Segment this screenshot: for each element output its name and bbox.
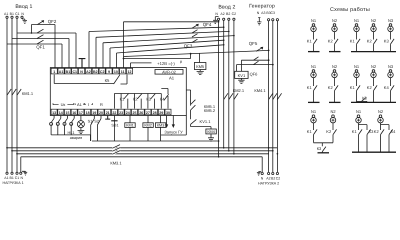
- node A1 B1 C1 N labels: [4, 12, 24, 16]
- breaker QF3 pole2: [192, 34, 198, 37]
- ground KM4: [208, 134, 214, 141]
- node Ввод 1 label: [15, 4, 32, 10]
- svg-text:11: 11: [121, 70, 125, 74]
- svg-text:22: 22: [112, 111, 116, 115]
- ground HL1: [78, 128, 85, 134]
- wire drop to terminal 1: [54, 25, 56, 68]
- wire bar r3c1: [318, 152, 330, 154]
- contactor coil KM3: [160, 116, 162, 123]
- svg-text:B1: B1: [66, 70, 71, 74]
- lamp HL1: [80, 116, 82, 121]
- svg-text:K1: K1: [352, 129, 358, 134]
- svg-text:К1: К1: [120, 97, 125, 102]
- wire bus N: [21, 157, 262, 173]
- wire from box edge: [186, 90, 190, 105]
- ground input1 N: [22, 18, 27, 23]
- wire branch N1: [313, 32, 315, 52]
- svg-text:+12В =(-): +12В =(-): [157, 61, 175, 66]
- svg-text:25: 25: [133, 111, 137, 115]
- svg-text:B1: B1: [10, 176, 14, 180]
- svg-text:C3: C3: [270, 11, 275, 15]
- svg-text:17: 17: [79, 111, 83, 115]
- svg-text:N2: N2: [330, 109, 336, 114]
- svg-text:B2: B2: [271, 176, 275, 180]
- svg-text:N2: N2: [371, 18, 377, 23]
- breaker QF2 label: [48, 19, 57, 24]
- node load1 labels: [4, 176, 23, 180]
- svg-text:C1: C1: [15, 12, 20, 16]
- svg-text:N1: N1: [311, 64, 317, 69]
- svg-text:N1: N1: [311, 109, 317, 114]
- wire terminal 22 down: [113, 116, 115, 142]
- svg-text:N: N: [80, 70, 83, 74]
- relay contact K2: [135, 94, 142, 109]
- svg-text:A1: A1: [4, 176, 8, 180]
- svg-text:12: 12: [128, 70, 132, 74]
- relay contact KM5.1: [191, 100, 196, 105]
- relay contact K5: [114, 75, 120, 85]
- wire branch N2: [373, 32, 375, 52]
- wire B1 branch to QF1: [12, 38, 69, 40]
- wire line to terminal 10: [117, 45, 224, 53]
- wire branch N3: [390, 78, 392, 103]
- svg-text:24: 24: [126, 111, 130, 115]
- svg-text:К4: К4: [160, 97, 165, 102]
- wire split n1 r3c2: [359, 123, 368, 152]
- node Ввод 2 label: [218, 5, 235, 11]
- svg-text:C2: C2: [276, 176, 281, 180]
- wire phase B1 vertical: [11, 18, 13, 172]
- node N A2 B2 C2 labels: [215, 12, 236, 16]
- wire bar r2c1b: [329, 101, 341, 103]
- svg-text:K1: K1: [307, 39, 313, 44]
- svg-text:QF1: QF1: [36, 44, 45, 49]
- wire branch N3: [390, 32, 392, 52]
- resistor dash under 21: [105, 116, 110, 120]
- svg-text:29: 29: [159, 111, 163, 115]
- svg-text:K2: K2: [328, 85, 334, 90]
- svg-text:I: I: [88, 102, 89, 107]
- ground load2 N: [257, 172, 261, 176]
- svg-text:К5: К5: [105, 78, 110, 83]
- wire battery plus line: [124, 58, 191, 60]
- wire B2 vertical: [228, 20, 230, 150]
- wire A2 vertical: [223, 20, 225, 147]
- svg-text:N2: N2: [332, 64, 338, 69]
- wire QF4 line to terminal A2: [89, 27, 224, 31]
- svg-text:N3: N3: [388, 18, 394, 23]
- svg-text:K1: K1: [307, 129, 313, 134]
- svg-text:28: 28: [153, 111, 157, 115]
- svg-text:QF2: QF2: [48, 19, 57, 24]
- switch S1: [91, 116, 95, 142]
- breaker QF2 contact: [38, 21, 44, 25]
- svg-text:30: 30: [166, 111, 170, 115]
- relay coil KV1: [235, 71, 248, 78]
- svg-text:Ввод 1: Ввод 1: [15, 4, 32, 10]
- wire QF6 line1: [241, 59, 268, 61]
- wire start output 30: [172, 116, 174, 128]
- node Запуск ГУ label: [164, 129, 183, 134]
- svg-text:N1: N1: [354, 18, 360, 23]
- junction terminal11 battery: [123, 58, 125, 60]
- node Схемы работы title: [330, 7, 370, 13]
- svg-text:КМ3: КМ3: [157, 124, 165, 128]
- breaker QF4 contact: [192, 24, 198, 28]
- svg-text:НАГРУЗКА 2: НАГРУЗКА 2: [258, 181, 279, 185]
- svg-text:B2: B2: [226, 12, 230, 16]
- wire branch N2: [332, 123, 334, 143]
- breaker QF1 pole3: [37, 40, 44, 44]
- device AVR-02 outer box: [50, 68, 186, 116]
- node Запуск ГУ output box: [161, 116, 186, 136]
- terminal circles input2: [218, 18, 220, 20]
- contactor coil KM2: [147, 116, 149, 123]
- svg-text:Ввод 2: Ввод 2: [218, 5, 235, 11]
- RIGHT PANEL: [307, 7, 396, 153]
- node bracket Uк: [53, 103, 74, 104]
- svg-text:R: R: [100, 102, 103, 107]
- node bracket I: [85, 103, 93, 104]
- svg-text:КМ1: КМ1: [126, 124, 134, 128]
- svg-text:15: 15: [66, 111, 70, 115]
- junction QF6: [268, 59, 270, 61]
- svg-text:QF4: QF4: [203, 22, 212, 27]
- svg-text:27: 27: [146, 111, 150, 115]
- wire gen B3 vertical: [272, 21, 274, 173]
- wire battery minus line to terminal 12: [131, 61, 182, 63]
- relay contact KM5.2: [191, 105, 196, 111]
- relay contact K4: [161, 89, 168, 109]
- svg-text:N1: N1: [311, 18, 317, 23]
- svg-text:S1: S1: [88, 119, 93, 123]
- svg-text:9: 9: [108, 70, 110, 74]
- svg-text:S2: S2: [94, 119, 99, 123]
- svg-text:14: 14: [59, 111, 63, 115]
- wire bar r3c2: [352, 151, 396, 153]
- ground km5: [197, 70, 204, 75]
- relay coil KM5: [194, 63, 206, 70]
- relay coil KM4: [191, 124, 211, 129]
- svg-text:1: 1: [53, 70, 55, 74]
- node battery label: [152, 61, 181, 66]
- wire bar r2c1a: [308, 101, 320, 103]
- wire bus phase C: [17, 153, 269, 155]
- terminals rows: [51, 68, 171, 115]
- wire C1 branch to QF1: [17, 32, 76, 34]
- relay contacts K1-K4 common bar: [114, 93, 161, 95]
- wire A1 branch to QF1: [7, 43, 62, 45]
- relay contact KM1.1 labels: [22, 91, 34, 96]
- svg-text:K1: K1: [307, 85, 313, 90]
- wire drop to terminal A1: [61, 44, 63, 68]
- wire start output 29: [166, 116, 168, 128]
- wire branch N1: [313, 78, 315, 103]
- relay contact K1: [114, 94, 128, 109]
- jumper selector 3: [65, 116, 68, 123]
- wire drop to terminal 11: [123, 22, 125, 68]
- terminal circles generator: [268, 19, 270, 21]
- wire phase A1 vertical: [6, 18, 8, 172]
- svg-text:A2: A2: [266, 176, 270, 180]
- breaker QF3 pole1: [192, 30, 198, 33]
- relay contact KM1.1 pole1: [7, 89, 11, 95]
- svg-text:A1: A1: [169, 76, 175, 81]
- jumper selector 4: [71, 116, 74, 123]
- breaker QF3 label: [184, 43, 193, 48]
- wire bus phase B: [12, 150, 273, 152]
- wire drop to terminal B1: [68, 39, 70, 68]
- svg-text:КМ5: КМ5: [196, 64, 205, 69]
- relay contact KM1.1 pole3: [17, 89, 21, 95]
- relay contact KV1.1: [191, 110, 197, 124]
- svg-text:13: 13: [52, 111, 56, 115]
- ground input2 N: [213, 17, 219, 24]
- breaker QF1 label: [36, 44, 45, 49]
- wire QF3 line1 to terminal B2: [96, 31, 229, 37]
- svg-text:A2: A2: [86, 70, 91, 74]
- switch labels S1 S2: [88, 119, 99, 123]
- breaker QF1 pole1: [37, 29, 44, 33]
- svg-text:КМ1.1: КМ1.1: [22, 91, 34, 96]
- wire QF5 line to KM5: [124, 50, 269, 56]
- svg-text:N3: N3: [388, 64, 394, 69]
- ground KV1: [238, 78, 244, 83]
- svg-text:A3: A3: [261, 11, 265, 15]
- breaker QF1 pole2: [37, 35, 44, 39]
- svg-text:КМ2: КМ2: [144, 124, 152, 128]
- relay contact KM3.1 pole3: [113, 151, 121, 155]
- svg-text:К2: К2: [133, 97, 138, 102]
- junction battery km5: [190, 53, 192, 55]
- terminal circles load1: [6, 172, 8, 174]
- svg-text:N2: N2: [371, 64, 377, 69]
- svg-text:AL: AL: [77, 102, 83, 107]
- device designator A1: [169, 76, 175, 81]
- relay contact KM4.1 label: [254, 88, 266, 93]
- svg-text:K4: K4: [384, 85, 390, 90]
- relay contact KM4.1 pole1: [269, 93, 273, 99]
- wire gen C3 vertical: [276, 21, 278, 173]
- svg-text:N2: N2: [332, 18, 338, 23]
- svg-text:K1: K1: [350, 85, 356, 90]
- svg-text:21: 21: [106, 111, 110, 115]
- wire phase C1 vertical: [16, 18, 18, 172]
- wire bar r2c2: [351, 101, 396, 103]
- svg-text:авария: авария: [70, 136, 83, 140]
- svg-text:НАГРУЗКА 1: НАГРУЗКА 1: [3, 181, 24, 185]
- node load2 labels: [261, 176, 281, 180]
- relay contact K3 below tie r3c1: [314, 142, 334, 144]
- svg-text:Запуск ГУ: Запуск ГУ: [164, 129, 183, 134]
- svg-text:10: 10: [114, 70, 118, 74]
- wire C2 vertical: [233, 20, 235, 153]
- wire common return line: [92, 140, 219, 142]
- svg-text:КМ5.2: КМ5.2: [204, 108, 216, 113]
- lamp HL1 label: [68, 131, 83, 140]
- svg-text:N1: N1: [356, 109, 362, 114]
- svg-text:23: 23: [119, 111, 123, 115]
- relay contact KM2.1 pole3: [234, 93, 238, 99]
- svg-text:QF6: QF6: [250, 72, 259, 77]
- svg-text:A2: A2: [220, 12, 224, 16]
- wire drop to terminal A2: [88, 32, 90, 68]
- wire QF3 line2 to terminal C2: [103, 36, 234, 43]
- svg-text:К4: К4: [391, 129, 396, 134]
- svg-text:AVR-02: AVR-02: [162, 69, 176, 74]
- wire drop to terminal C2: [102, 43, 104, 68]
- terminal circles load2: [261, 172, 263, 174]
- svg-text:КМ4.1: КМ4.1: [254, 88, 266, 93]
- relay contact KM4.1 pole3: [277, 93, 281, 99]
- relay contact KM3.1 pole1: [113, 145, 121, 149]
- wire drop to terminal C1: [75, 33, 77, 68]
- svg-text:K2: K2: [367, 39, 373, 44]
- svg-text:N1: N1: [354, 64, 360, 69]
- breaker QF6 pole2: [254, 61, 259, 64]
- relay contact KM2.1 pole1: [224, 93, 228, 99]
- node bracket AL: [75, 103, 84, 104]
- wire top line to terminal 11: [124, 21, 219, 23]
- wire bar r1c1b: [329, 51, 341, 53]
- svg-text:A1: A1: [4, 12, 8, 16]
- svg-text:C1: C1: [15, 176, 20, 180]
- breaker QF4 label: [203, 22, 212, 27]
- svg-text:20: 20: [99, 111, 103, 115]
- wire QF2 horizontal: [32, 24, 56, 26]
- svg-text:A1: A1: [59, 70, 64, 74]
- svg-text:19: 19: [92, 111, 96, 115]
- svg-text:КМ2.1: КМ2.1: [233, 88, 245, 93]
- ground load1 N: [22, 171, 27, 175]
- svg-text:К3: К3: [317, 146, 322, 151]
- svg-text:К3: К3: [146, 97, 151, 102]
- svg-text:Генератор: Генератор: [249, 4, 275, 10]
- node N A3 B3 C3 labels: [257, 11, 275, 15]
- wire QF3 line3 to terminal 9: [110, 40, 224, 48]
- breaker QF5 label: [249, 41, 258, 46]
- relay contact KM3.1 label: [110, 160, 122, 165]
- relay K5 bus: [54, 75, 113, 84]
- wire KV1 feeds: [237, 60, 242, 71]
- wire QF6 line2: [237, 64, 273, 66]
- breaker QF6 pole1: [254, 57, 259, 60]
- svg-text:N2: N2: [378, 109, 384, 114]
- svg-text:K2: K2: [326, 129, 332, 134]
- wire branch N1: [356, 78, 358, 103]
- relay contact KM3.1 pole2: [113, 148, 121, 152]
- wire branch N1: [313, 123, 315, 143]
- svg-text:K2: K2: [367, 85, 373, 90]
- svg-text:KV1: KV1: [238, 73, 246, 78]
- relay contact K3: [148, 94, 155, 109]
- wire split n2 r3c2: [381, 123, 390, 152]
- terminal circles input1: [6, 16, 8, 18]
- svg-text:C2: C2: [100, 70, 105, 74]
- svg-text:КМ4: КМ4: [207, 130, 215, 134]
- device AVR-02 name box: [155, 70, 183, 75]
- svg-text:SB1: SB1: [111, 124, 118, 128]
- wire drop to terminal 12: [130, 63, 132, 68]
- breaker QF5 contact: [256, 47, 263, 51]
- wire jumper bus: [51, 135, 90, 141]
- svg-text:KV1.1: KV1.1: [200, 119, 212, 124]
- switch S2: [97, 116, 101, 142]
- wire branch N2: [373, 78, 375, 103]
- wire bar r1c1a: [308, 51, 320, 53]
- relay contact KM1.1 pole2: [12, 89, 16, 95]
- svg-text:Схемы работы: Схемы работы: [330, 7, 370, 13]
- terminal row top 1..12: [51, 68, 57, 74]
- svg-text:26: 26: [139, 111, 143, 115]
- svg-text:K3: K3: [384, 39, 390, 44]
- breaker QF6 label: [250, 72, 259, 77]
- junction QF5 on A3: [268, 50, 270, 52]
- svg-text:16: 16: [72, 111, 76, 115]
- wire drop to terminal B2: [95, 37, 97, 67]
- svg-text:HL1: HL1: [68, 131, 75, 135]
- svg-text:КМ3.1: КМ3.1: [110, 160, 122, 165]
- svg-text:18: 18: [86, 111, 90, 115]
- breaker QF3 pole3: [192, 39, 198, 42]
- contactor coil KM1: [129, 116, 131, 123]
- relay contact KM2.1 label: [233, 88, 245, 93]
- wire branch N2: [334, 78, 336, 103]
- button SB1: [111, 120, 117, 122]
- relay contact KM2.1 pole2: [229, 93, 233, 99]
- ground generator N: [257, 18, 261, 25]
- wire hook from terminal 12: [121, 75, 128, 85]
- wire drop to terminal 10: [116, 53, 118, 68]
- relay contact KM4.1 pole2: [273, 93, 277, 99]
- svg-text:Uк: Uк: [61, 102, 66, 107]
- svg-text:B1: B1: [10, 12, 14, 16]
- svg-text:K2: K2: [328, 39, 334, 44]
- wire N2 vertical: [218, 20, 220, 156]
- wire drop to terminal 9: [109, 48, 111, 68]
- terminal N grounding bar: [79, 59, 86, 68]
- node Генератор label: [249, 4, 275, 10]
- wire gen A3 vertical: [268, 21, 270, 173]
- svg-text:K1: K1: [350, 39, 356, 44]
- wire bus phase A: [7, 147, 277, 149]
- svg-text:C1: C1: [72, 70, 77, 74]
- svg-text:K2: K2: [374, 129, 380, 134]
- wire link km5: [190, 54, 192, 59]
- svg-text:B2: B2: [93, 70, 98, 74]
- wire bar r1c2: [351, 51, 396, 53]
- terminal row bottom 13..30: [51, 109, 57, 115]
- wire branch N2: [334, 32, 336, 52]
- wire km5 coil feed: [198, 53, 200, 62]
- wire branch N1: [356, 32, 358, 52]
- svg-text:QF5: QF5: [249, 41, 258, 46]
- wire stub C1 to QF2: [31, 25, 33, 34]
- jumper selector 1: [51, 116, 54, 123]
- svg-text:C2: C2: [232, 12, 237, 16]
- jumper selector 2: [58, 116, 61, 123]
